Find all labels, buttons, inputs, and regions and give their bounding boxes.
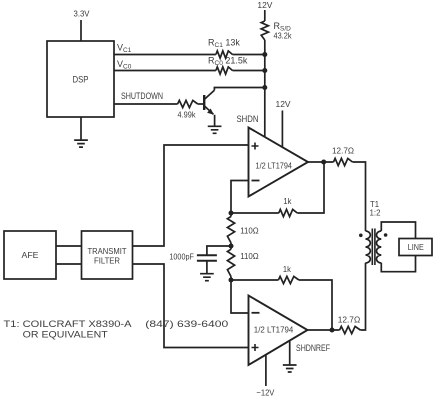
wire RC1 to SHDN rail bbox=[233, 54, 265, 56]
ground (DSP) bbox=[74, 140, 88, 147]
resistor R 1k (bottom feedback) bbox=[278, 276, 299, 283]
wire node B to C1 bbox=[207, 246, 231, 255]
junction collector / SHDN rail bbox=[262, 85, 267, 90]
junction VC1 / SHDN rail bbox=[262, 52, 267, 57]
svg-text:LINE: LINE bbox=[408, 242, 424, 252]
svg-text:43.2k: 43.2k bbox=[274, 31, 293, 41]
transistor Q1 (NPN) bbox=[203, 95, 205, 110]
resistor R 1k (top feedback) bbox=[279, 209, 298, 216]
wire T1 secondary top to LINE bbox=[381, 222, 415, 239]
wire node C to R 1k bottom bbox=[231, 279, 278, 281]
wire 3.3V to DSP top bbox=[80, 20, 82, 41]
junction U2 output / feedback bbox=[330, 328, 335, 333]
T1 secondary winding bbox=[376, 231, 381, 263]
wire transmit filter bottom output to U2 + bbox=[133, 264, 249, 348]
T1 primary winding bbox=[366, 231, 371, 263]
resistor RC1 13k bbox=[216, 51, 233, 58]
wire transmit filter top output to U1 + bbox=[133, 145, 249, 246]
wire 12.7 ohm to T1 primary top bbox=[353, 162, 366, 231]
wire 12V to U1 supply pin bbox=[281, 111, 283, 148]
wire Q1 collector to SHDN rail bbox=[214, 88, 264, 91]
wire U1 - input to node A bbox=[231, 181, 249, 214]
wire 110 ohm upper stubs bbox=[230, 213, 232, 246]
svg-text:SHDN: SHDN bbox=[237, 114, 259, 124]
wire Q1 emitter to ground bbox=[214, 115, 216, 126]
ground (C1) bbox=[200, 274, 214, 281]
svg-text:AFE: AFE bbox=[22, 250, 39, 260]
svg-text:DSP: DSP bbox=[73, 75, 89, 85]
resistor 12.7 ohm (top) bbox=[334, 158, 353, 165]
LINE block bbox=[399, 239, 432, 256]
svg-text:110Ω: 110Ω bbox=[240, 251, 259, 261]
svg-text:12V: 12V bbox=[257, 0, 272, 10]
ground (Q1 emitter) bbox=[208, 126, 222, 133]
wire C1 to ground bbox=[206, 261, 208, 274]
resistor RS/D 43.2k bbox=[261, 21, 268, 40]
node A junction (top of 110 ohm divider) bbox=[229, 211, 234, 216]
svg-text:RC0 21.5k: RC0 21.5k bbox=[208, 56, 248, 68]
TRANSMIT FILTER block bbox=[82, 231, 133, 279]
resistor 110 ohm (lower) bbox=[227, 249, 234, 276]
svg-text:1/2 LT1794: 1/2 LT1794 bbox=[256, 161, 293, 171]
wire DSP VC1 to RC1 bbox=[114, 54, 216, 56]
svg-text:12.7Ω: 12.7Ω bbox=[332, 146, 354, 156]
wire R 1k top to U1 output bbox=[297, 162, 324, 213]
svg-text:1:2: 1:2 bbox=[370, 208, 381, 218]
svg-text:SHDNREF: SHDNREF bbox=[296, 343, 330, 353]
svg-text:SHUTDOWN: SHUTDOWN bbox=[121, 91, 163, 101]
wire U1 output bbox=[308, 161, 334, 163]
svg-text:12V: 12V bbox=[276, 99, 291, 109]
resistor 4.99k bbox=[178, 100, 198, 107]
wire U2 output bbox=[308, 329, 340, 331]
wire 12.7 ohm bottom to T1 primary bottom bbox=[360, 263, 365, 330]
svg-text:T1: COILCRAFT X8390-A: T1: COILCRAFT X8390-A bbox=[4, 319, 133, 330]
ground (SHDNREF) bbox=[283, 365, 297, 372]
svg-text:1/2 LT1794: 1/2 LT1794 bbox=[254, 325, 294, 335]
wire R 1k bottom to U2 output bbox=[299, 280, 332, 330]
T1 phase dot (secondary) bbox=[384, 233, 388, 237]
node C junction (bottom of divider) bbox=[229, 278, 234, 283]
wire U2 supply to -12V bbox=[265, 355, 267, 386]
wire LINE to T1 secondary bottom bbox=[381, 256, 415, 272]
wire SHDN rail down to op-amp U1 SHDN pin bbox=[264, 40, 266, 137]
svg-text:4.99k: 4.99k bbox=[178, 110, 197, 120]
svg-text:−12V: −12V bbox=[256, 388, 274, 398]
node B junction (center tap) bbox=[229, 244, 234, 249]
wire node C to U2 - input bbox=[231, 280, 249, 313]
wire DSP VC0 to RC0 bbox=[114, 70, 216, 72]
wire node A to R 1k top bbox=[231, 212, 279, 214]
wire DSP to ground bbox=[80, 117, 82, 140]
T1 phase dot (primary) bbox=[359, 234, 363, 238]
resistor 12.7 ohm (bottom) bbox=[340, 326, 361, 333]
resistor RC0 21.5k bbox=[216, 67, 233, 74]
svg-text:1k: 1k bbox=[283, 196, 292, 206]
svg-text:3.3V: 3.3V bbox=[74, 9, 90, 19]
junction VC0 / SHDN rail bbox=[262, 68, 267, 73]
op-amp U2 1/2 LT1794 (bottom) bbox=[249, 296, 308, 366]
T1 core bbox=[372, 229, 375, 266]
op-amp U1 1/2 LT1794 (top) bbox=[249, 128, 309, 197]
resistor 110 ohm (upper) bbox=[227, 217, 234, 243]
junction U1 output / feedback bbox=[321, 160, 326, 165]
wire SHUTDOWN from DSP bbox=[114, 103, 178, 105]
svg-text:110Ω: 110Ω bbox=[240, 226, 259, 236]
capacitor C1 1000pF bbox=[197, 255, 217, 260]
AFE block bbox=[4, 231, 56, 279]
wire RC0 to SHDN rail bbox=[233, 70, 265, 72]
svg-text:OR EQUIVALENT: OR EQUIVALENT bbox=[23, 330, 108, 341]
svg-text:TRANSMIT: TRANSMIT bbox=[88, 246, 127, 256]
svg-text:RC1 13k: RC1 13k bbox=[208, 38, 240, 50]
svg-text:1000pF: 1000pF bbox=[169, 252, 194, 262]
wire AFE to transmit filter (pair) bbox=[56, 246, 82, 264]
wire 110 ohm lower stubs bbox=[230, 246, 232, 280]
wire base of Q1 bbox=[198, 103, 204, 105]
DSP block U2 bbox=[47, 41, 114, 117]
wire 12V to RSD bbox=[264, 10, 266, 21]
svg-text:12.7Ω: 12.7Ω bbox=[338, 315, 361, 325]
wire SHDNREF to ground bbox=[289, 341, 291, 365]
svg-text:(847) 639-6400: (847) 639-6400 bbox=[145, 319, 228, 330]
svg-text:FILTER: FILTER bbox=[94, 256, 120, 266]
svg-text:1k: 1k bbox=[283, 264, 292, 274]
